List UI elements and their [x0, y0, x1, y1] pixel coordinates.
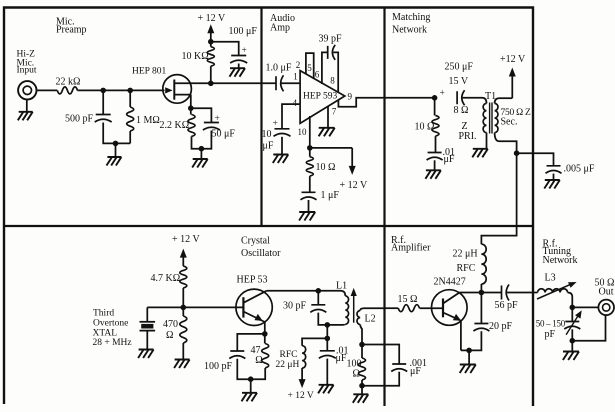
divider horizontal mid [4, 225, 533, 227]
wire node to 100uF [211, 42, 239, 56]
svg-text:Crystal: Crystal [241, 236, 270, 247]
resistor 100 Ohm [359, 358, 366, 380]
node preamp RC ground junction [113, 141, 119, 147]
svg-text:+: + [215, 114, 220, 124]
resistor 10 Ohm audio amp [309, 148, 311, 157]
variable cap arrow [566, 314, 579, 335]
wire collector node to 30pF [317, 291, 319, 305]
wire node1 to node2 [326, 325, 328, 339]
inductor L1 top wire [318, 291, 345, 296]
capacitor 100 uF polarized [230, 56, 247, 64]
capacitor 1.0 uF input [276, 75, 284, 91]
node drain junction [208, 81, 214, 87]
pin 6 wire up to 39pF [322, 52, 328, 84]
svg-text:+: + [440, 89, 445, 99]
svg-text:500 pF: 500 pF [65, 113, 94, 124]
node matching input junction [432, 95, 438, 101]
node emitter ground junction [466, 348, 472, 354]
RFC coil 22uH crystal osc [302, 346, 306, 368]
node 2.2K/50uF ground junction [199, 146, 205, 152]
wire node to 500pF [102, 90, 104, 114]
wire node to .005uF [517, 153, 554, 166]
svg-text:22 μH: 22 μH [453, 249, 478, 260]
node collector junction rf amp [479, 290, 485, 296]
transformer T1 core [489, 103, 491, 134]
node pin10 / 10 Ohm junction [307, 145, 313, 151]
wire 2.2K and 50uF to bottom rail [192, 131, 212, 149]
svg-text:1 MΩ: 1 MΩ [136, 115, 160, 126]
svg-text:PRI.: PRI. [459, 131, 477, 142]
wire T1 secondary top to +12V [495, 98, 499, 103]
ground under osc .01uF [318, 385, 334, 394]
svg-text:Network: Network [392, 25, 427, 36]
wire L2 to 15 Ohm [385, 307, 399, 309]
svg-text:4.7 KΩ: 4.7 KΩ [151, 273, 181, 284]
pin 10 wire down to node [309, 116, 311, 148]
svg-text:10: 10 [262, 129, 272, 140]
svg-text:μF: μF [410, 366, 421, 377]
svg-text:2: 2 [296, 60, 301, 70]
wire 1uF to ground [308, 200, 310, 212]
wire collector to node [267, 290, 319, 292]
node secondary bottom junction [514, 150, 520, 156]
svg-text:22 kΩ: 22 kΩ [56, 77, 81, 88]
inductor L2 [357, 311, 360, 325]
node source junction [188, 105, 194, 111]
arrow +12V down under RFC [301, 368, 303, 383]
svg-text:30 pF: 30 pF [283, 301, 307, 312]
ground under T1 primary [472, 149, 488, 158]
wire 100uF to ground [238, 64, 240, 69]
node collector junction [316, 288, 322, 294]
tuning arrow through L3 [537, 284, 571, 299]
ground under 2N4427 [460, 365, 476, 374]
svg-text:Oscillator: Oscillator [241, 248, 281, 259]
svg-text:HEP 801: HEP 801 [132, 67, 166, 77]
wire 56pF to tuning network [507, 292, 538, 294]
svg-text:Sec.: Sec. [501, 117, 518, 128]
wire .005uF to ground [553, 174, 555, 180]
wire T1 secondary bottom to node [495, 133, 500, 142]
wire L3 to output node [568, 293, 573, 308]
wire 10uF to ground [281, 137, 283, 155]
inductor L2 bottom wire [360, 325, 362, 345]
svg-text:HEP 593: HEP 593 [303, 92, 337, 102]
wire 30pF to bottom [318, 313, 327, 325]
resistor 47 Ohm [264, 334, 266, 344]
divider audio-amp / matching and oscillator / rf-amp [383, 8, 385, 407]
svg-text:50 – 150: 50 – 150 [536, 318, 566, 328]
svg-text:50 μF: 50 μF [212, 128, 236, 139]
svg-text:+ 12 V: + 12 V [340, 180, 368, 191]
wire to ground preamp RC [115, 143, 117, 157]
node osc .01uF junction [325, 336, 331, 342]
wire node to +12V arrow audio amp [310, 147, 352, 149]
wire to ground 2N4427 [468, 350, 470, 364]
wire 1.0uF to pin 1 [282, 82, 301, 84]
wire R to .01uF [435, 136, 437, 152]
svg-text:470: 470 [163, 319, 178, 330]
svg-text:μF: μF [336, 353, 347, 364]
ground under 470 [174, 360, 190, 369]
RFC coil 22uH rf amp [481, 244, 486, 284]
svg-text:Amp: Amp [270, 23, 290, 34]
svg-text:7: 7 [332, 107, 337, 117]
svg-text:Ω: Ω [255, 355, 262, 366]
svg-text:15 Ω: 15 Ω [398, 294, 418, 305]
svg-text:1: 1 [293, 72, 298, 82]
divider mic-preamp / audio-amp [260, 8, 262, 227]
wire 47 Ohm to bottom rail [251, 368, 266, 379]
svg-text:2.2 KΩ: 2.2 KΩ [160, 120, 190, 131]
resistor 470 Ohm [182, 307, 184, 316]
svg-text:Ω: Ω [166, 330, 173, 341]
wire to ground 100 Ohm [361, 386, 363, 395]
svg-text:10 KΩ: 10 KΩ [182, 51, 209, 62]
svg-text:μF: μF [263, 140, 274, 151]
pin 7 wire to ground [327, 106, 329, 127]
wire collector node to 56pF [481, 292, 501, 294]
svg-text:+ 12 V: + 12 V [172, 234, 200, 245]
svg-text:1 μF: 1 μF [321, 190, 340, 201]
resistor 22 kOhm [57, 87, 77, 94]
wire connector to R 22k [36, 89, 57, 91]
resistor 4.7 KOhm [180, 266, 187, 288]
wire connector to ground [26, 99, 28, 112]
capacitor .01 uF crystal osc [319, 351, 336, 359]
svg-text:Matching: Matching [392, 12, 430, 23]
capacitor .005 uF [546, 166, 562, 174]
wire source node to R 2.2K [190, 108, 192, 114]
wire 470 to ground [182, 343, 184, 360]
svg-text:Preamp: Preamp [56, 25, 87, 36]
capacitor .01 uF matching [427, 153, 443, 161]
inductor L2 top wire [360, 308, 384, 310]
resistor 15 Ohm [398, 305, 419, 312]
svg-text:10: 10 [298, 127, 308, 137]
output wire pin 9 to matching network [338, 98, 434, 107]
transistor Q3 2N4427 [432, 290, 468, 326]
ground under tuning cap [563, 352, 579, 361]
svg-text:L1: L1 [336, 281, 347, 292]
svg-text:L2: L2 [365, 314, 376, 325]
ground under crystal [138, 350, 154, 359]
svg-text:1.0 μF: 1.0 μF [266, 62, 292, 73]
wire source node to 50uF [191, 108, 212, 122]
svg-text:8: 8 [330, 76, 335, 86]
wire to ground 2.2K/50uF [200, 149, 202, 159]
wire 15 Ohm to base [420, 307, 444, 309]
wire L2 bottom node to 100 Ohm [361, 345, 363, 359]
wire 250uF to T1 primary [463, 97, 482, 99]
node tuning top junction [570, 305, 576, 311]
svg-text:L3: L3 [545, 273, 556, 284]
inductor L1 bottom wire [327, 323, 345, 326]
svg-text:250 μF: 250 μF [445, 62, 474, 73]
svg-text:39 pF: 39 pF [319, 34, 343, 45]
svg-text:+ 12 V: + 12 V [198, 13, 226, 24]
svg-text:100 pF: 100 pF [204, 361, 233, 372]
resistor 1 MOhm [129, 90, 131, 107]
svg-text:Input: Input [17, 66, 37, 76]
svg-text:+12 V: +12 V [500, 54, 526, 65]
wire 20pF to ground rail [461, 331, 482, 350]
wire .01uF to ground [434, 160, 436, 170]
wire collector node to 20pF [480, 293, 482, 324]
ground under 47/100pF [242, 393, 258, 402]
pin 4 wire to 10uF [282, 104, 300, 129]
svg-text:8 Ω: 8 Ω [454, 105, 469, 116]
wire node down to RF amp RFC [481, 153, 516, 244]
ground pin 7 [319, 128, 335, 137]
ground under 100 Ohm [353, 394, 369, 403]
node L2 bottom junction [359, 342, 365, 348]
transistor Q1 HEP 801 FET [163, 75, 192, 104]
resistor 10 KOhm [207, 47, 214, 67]
svg-text:22 μH: 22 μH [276, 360, 300, 370]
svg-text:Ω: Ω [353, 369, 360, 380]
node emitter junction [262, 331, 268, 337]
svg-text:+: + [242, 46, 247, 56]
wire drain node to audio amp cap [211, 82, 276, 84]
wire drain to node [191, 82, 211, 84]
wire source down to node [190, 95, 192, 109]
ground under 100uF [230, 68, 246, 77]
capacitor .001 uF [391, 364, 407, 372]
wire emitter node left to 100pF [237, 334, 264, 351]
wire base rail [147, 306, 243, 308]
connector J2 50 Ohm out [598, 300, 614, 316]
svg-text:6: 6 [315, 70, 320, 80]
wire 10 Ohm to 1uF [309, 176, 311, 192]
svg-text:56 pF: 56 pF [495, 300, 519, 311]
capacitor 20 pF [473, 324, 489, 332]
transformer T1 secondary winding [495, 103, 498, 132]
node +12V / 100uF junction [208, 39, 214, 45]
capacitor 30 pF [310, 305, 326, 313]
svg-text:10 Ω: 10 Ω [316, 162, 336, 173]
wire node to output connector [572, 306, 598, 308]
svg-text:20 pF: 20 pF [489, 321, 513, 332]
svg-text:pF: pF [545, 329, 556, 340]
svg-text:9: 9 [348, 92, 353, 102]
svg-text:RFC: RFC [457, 263, 476, 274]
capacitor 100 pF [229, 351, 245, 359]
transistor Q2 HEP 53 [236, 289, 272, 325]
inductor L1 [345, 296, 348, 324]
ground under 500pF / 1M [107, 157, 122, 166]
capacitor 500 pF [95, 115, 112, 123]
svg-text:μF: μF [444, 154, 455, 165]
svg-text:10 Ω: 10 Ω [415, 122, 435, 133]
wire crystal drop [146, 307, 148, 321]
ground under .01uF matching [425, 170, 441, 179]
svg-text:+: + [273, 119, 278, 129]
node L1/30pF junction [325, 322, 331, 328]
pin 2 to pin 5 bracket wire [306, 53, 314, 79]
ground under .005uF [544, 180, 560, 189]
svg-text:Overtone: Overtone [93, 319, 128, 329]
capacitor 39 pF [328, 45, 336, 60]
wire emitter down [460, 321, 462, 350]
svg-text:Network: Network [543, 255, 578, 266]
svg-text:2N4427: 2N4427 [434, 277, 466, 288]
wire T1 primary to ground [486, 133, 488, 149]
wire node down to R 10 Ohm [434, 98, 436, 116]
svg-text:5: 5 [307, 63, 312, 73]
node 1M junction [127, 88, 133, 94]
wire .001uF bottom to node [362, 372, 399, 386]
ground under mic connector [18, 112, 33, 121]
resistor 2.2 KOhm [188, 115, 195, 137]
ground under 1uF [299, 212, 315, 221]
node 500pF junction [100, 88, 106, 94]
wire RFC to collector node [480, 284, 482, 293]
svg-text:Out: Out [599, 287, 614, 298]
node base junction [181, 305, 187, 311]
resistor 10 Ohm matching [432, 116, 439, 137]
wire to ground tuning [571, 341, 573, 352]
arrow +12 V supply mic preamp [210, 30, 212, 42]
connector J1 Hi-Z mic input [18, 81, 36, 99]
inductor L3 [538, 289, 568, 293]
node 47/100pF ground junction [248, 376, 254, 382]
wire to ground 47/100pF [250, 379, 252, 393]
svg-text:Amplifier: Amplifier [391, 243, 431, 254]
tuning arrow through L1 [353, 293, 355, 322]
wire node2 to RFC [302, 338, 327, 345]
variable capacitor 50-150 pF [571, 307, 573, 321]
svg-text:28 + MHz: 28 + MHz [93, 338, 132, 348]
ground under 10uF [273, 155, 289, 164]
wire R 10K to +12V node [210, 42, 212, 47]
svg-text:RFC: RFC [280, 350, 298, 360]
node tuning bottom junction [570, 338, 576, 344]
wire 4.7K to base node [182, 288, 184, 308]
node 100 Ohm bottom junction [359, 383, 365, 389]
pin 8 wire from 39pF down to triangle [333, 52, 338, 92]
wire node2 to .01uF [326, 338, 328, 350]
wire return loop to connector [572, 315, 605, 341]
capacitor 56 pF [502, 285, 510, 301]
wire 100 Ohm to bottom node [361, 380, 363, 386]
svg-text:15 V: 15 V [449, 76, 469, 87]
capacitor 50 uF polarized [203, 123, 220, 131]
wire 500pF to bottom rail [103, 123, 130, 144]
capacitor 10 uF audio amp [274, 129, 291, 137]
wire emitter down to node [262, 321, 265, 334]
capacitor 250 uF [457, 90, 465, 105]
wire crystal to ground [146, 331, 148, 350]
arrow +12V crystal osc [182, 254, 184, 266]
wire 100pF to bottom rail [237, 359, 250, 379]
crystal Y1 third overtone [140, 321, 156, 323]
arrow +12 V down audio amp [351, 148, 353, 170]
wire R 22k to gate of Q1 [78, 89, 165, 91]
svg-text:Third: Third [93, 309, 114, 319]
wire collector to node [460, 292, 482, 294]
transformer T1 primary winding [483, 103, 486, 132]
svg-text:HEP 53: HEP 53 [237, 275, 268, 286]
wire .01uF to ground [326, 359, 328, 385]
svg-text:4: 4 [293, 98, 298, 108]
svg-text:+ 12 V: + 12 V [288, 391, 314, 401]
svg-text:100 μF: 100 μF [229, 26, 258, 37]
capacitor 1 uF [301, 192, 317, 200]
ground under 2.2K / 50uF [192, 159, 208, 168]
wire drain node up to R 10K [210, 66, 212, 83]
op-amp U1 HEP 593 triangle [300, 71, 345, 124]
wire .001uF loop [362, 345, 399, 365]
svg-text:.005 μF: .005 μF [564, 164, 595, 175]
